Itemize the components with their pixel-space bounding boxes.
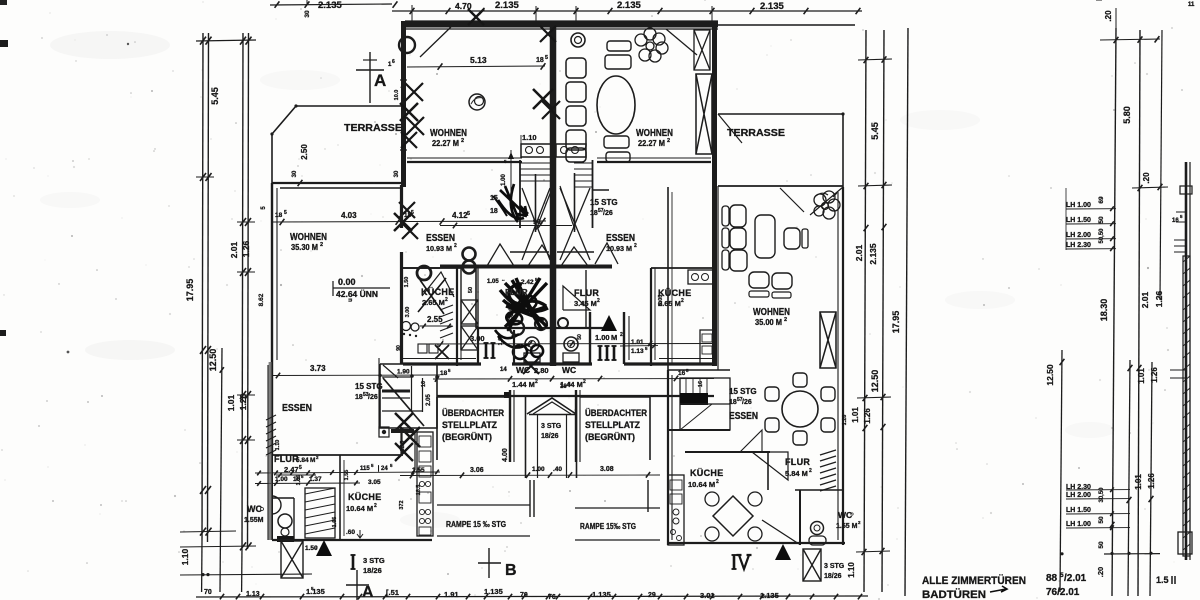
svg-text:/2.01: /2.01	[1064, 573, 1087, 584]
carport left: UEBERDACHTER STELLPLATZ	[436, 397, 438, 460]
svg-text:/26: /26	[603, 210, 613, 217]
svg-text:5: 5	[411, 210, 414, 216]
svg-text:STELLPLATZ: STELLPLATZ	[585, 420, 640, 430]
right unit living WOHNEN 35.00	[842, 187, 844, 545]
svg-text:372: 372	[399, 500, 405, 509]
svg-text:2.50: 2.50	[300, 144, 309, 160]
stair flights crossing left	[522, 188, 550, 260]
svg-text:76: 76	[548, 594, 556, 600]
svg-text:2.01: 2.01	[854, 244, 864, 261]
svg-text:1.00: 1.00	[595, 333, 610, 342]
terrace left outline	[272, 106, 296, 183]
svg-text:2: 2	[597, 298, 600, 304]
bottom sofa pair	[749, 272, 769, 288]
svg-text:70: 70	[204, 589, 212, 596]
window sill marks left wall	[400, 79, 407, 81]
svg-text:2.135: 2.135	[617, 0, 641, 11]
left dimension line group	[202, 33, 203, 540]
svg-text:1.13: 1.13	[631, 348, 644, 355]
wall stubs at stair foot	[403, 267, 440, 269]
RAMPE left	[437, 504, 530, 506]
carport right: UEBERDACHTER STELLPLATZ	[575, 390, 577, 462]
duct xboxes left	[461, 300, 478, 324]
svg-text:1.26: 1.26	[1147, 473, 1156, 489]
svg-text:10.64 M: 10.64 M	[688, 480, 715, 489]
svg-text:TERRASSE: TERRASSE	[727, 128, 785, 139]
svg-text:ESSEN: ESSEN	[729, 411, 758, 422]
svg-text:TERRASSE: TERRASSE	[344, 123, 402, 134]
bath sink rings	[510, 321, 524, 335]
right unit ESSEN lower	[667, 370, 669, 545]
svg-text:17.95: 17.95	[891, 311, 901, 334]
kitchen door wedge left	[422, 272, 454, 297]
svg-text:ÜBERDACHTER: ÜBERDACHTER	[585, 408, 647, 418]
svg-text:50: 50	[1098, 541, 1105, 549]
plant top right	[635, 34, 647, 46]
svg-text:FLUR: FLUR	[505, 287, 528, 297]
section marker A top	[369, 52, 371, 103]
top tiny marks far right	[1096, 0, 1102, 1]
svg-text:.40: .40	[553, 466, 562, 473]
pen ring left kitchen	[417, 266, 431, 280]
svg-text:A: A	[374, 71, 386, 90]
toilet symbol lower left	[278, 514, 292, 528]
stair shaft left unit	[519, 160, 521, 228]
svg-text:RAMPE 15‰ STG: RAMPE 15‰ STG	[580, 522, 636, 531]
pen ring on west wall	[399, 37, 415, 53]
wall fill left outer	[269, 362, 272, 540]
room WOHNEN 22.27 left	[407, 66, 545, 67]
entry triangle right	[775, 544, 791, 560]
svg-text:LH 1.50: LH 1.50	[1066, 507, 1091, 514]
svg-text:88: 88	[1046, 573, 1058, 584]
svg-text:16: 16	[560, 384, 567, 390]
svg-text:2.135: 2.135	[868, 243, 878, 265]
svg-text:1.55: 1.55	[412, 467, 425, 474]
svg-text:15 STG: 15 STG	[355, 382, 383, 391]
unit label III	[599, 346, 602, 360]
entry box with X right	[803, 549, 821, 581]
unit label II	[485, 343, 488, 358]
svg-text:LH 1.00: LH 1.00	[1066, 521, 1091, 528]
svg-text:LH 1.00: LH 1.00	[1066, 202, 1091, 209]
svg-text:3.00: 3.00	[470, 334, 485, 343]
svg-text:10.64 M: 10.64 M	[346, 504, 373, 513]
svg-text:WC: WC	[516, 365, 530, 375]
svg-text:4.03: 4.03	[341, 211, 357, 220]
svg-text:5.45: 5.45	[870, 122, 880, 140]
kitchen window hatch left wall	[440, 305, 453, 310]
svg-text:2.42: 2.42	[521, 279, 534, 286]
bottom wall right unit	[668, 542, 845, 544]
chairs along party wall	[571, 33, 585, 47]
svg-text:1.5: 1.5	[1156, 575, 1169, 585]
core mid dim line	[440, 225, 572, 227]
door pivot box	[379, 427, 389, 437]
svg-text:M: M	[310, 457, 315, 464]
window hatch right wall	[820, 450, 836, 455]
svg-text:ÜBERDACHTER: ÜBERDACHTER	[442, 408, 504, 418]
dining table right unit	[597, 76, 635, 134]
svg-text:1.26: 1.26	[1150, 367, 1159, 383]
svg-text:12.50: 12.50	[870, 370, 880, 393]
pen scribble left kitchen	[418, 278, 446, 314]
svg-text:1.44 M: 1.44 M	[512, 380, 535, 389]
left unit west core wall	[400, 185, 403, 228]
svg-text:5: 5	[467, 211, 470, 217]
pen X over WC label	[523, 358, 539, 374]
window xbox upper right wall	[694, 30, 710, 70]
room WOHNEN 35.30 / ESSEN left	[271, 183, 273, 455]
svg-text:30: 30	[394, 170, 400, 177]
svg-text:ESSEN: ESSEN	[606, 233, 635, 244]
svg-text:4.00: 4.00	[502, 448, 509, 462]
svg-text:18/26: 18/26	[541, 433, 559, 440]
entry niche walls	[477, 328, 479, 364]
svg-text:BADTÜREN: BADTÜREN	[922, 588, 986, 600]
svg-text:30: 30	[304, 10, 311, 18]
svg-text:2: 2	[809, 468, 812, 474]
svg-text:2: 2	[374, 503, 377, 509]
svg-text:2: 2	[320, 242, 323, 248]
svg-text:2.01: 2.01	[1140, 291, 1150, 308]
svg-text:2: 2	[667, 138, 670, 144]
svg-text:1.01: 1.01	[1134, 474, 1143, 490]
round dining table right unit	[782, 391, 818, 427]
svg-text:18: 18	[440, 370, 448, 377]
pen scribbles on west wall	[405, 83, 423, 101]
svg-text:↔: ↔	[501, 277, 506, 282]
svg-text:2.01: 2.01	[229, 241, 239, 258]
bottom wall of core	[403, 362, 481, 365]
svg-text:(BEGRÜNT): (BEGRÜNT)	[585, 432, 635, 442]
svg-text:5: 5	[284, 210, 287, 216]
svg-text:1.135: 1.135	[760, 591, 779, 600]
right mid dimension lines	[864, 30, 866, 592]
scan smudges	[50, 31, 170, 59]
svg-text:ESSEN: ESSEN	[426, 233, 455, 244]
svg-text:12.50: 12.50	[1045, 364, 1055, 386]
entry triangle left	[316, 540, 332, 556]
terrace right outline	[718, 113, 843, 115]
svg-text:50,50: 50,50	[1099, 228, 1105, 244]
entrance triangle right unit	[601, 315, 617, 331]
svg-text:KÜCHE: KÜCHE	[348, 492, 382, 502]
svg-text:1.10: 1.10	[180, 548, 190, 565]
svg-text:12.50: 12.50	[208, 349, 218, 372]
svg-text:1.26: 1.26	[238, 393, 248, 410]
svg-text:18: 18	[355, 394, 363, 401]
svg-text:LH 1.50: LH 1.50	[1066, 217, 1091, 224]
svg-text:22.27 M: 22.27 M	[638, 139, 665, 148]
stair shaft right unit	[592, 160, 594, 228]
svg-text:/26: /26	[368, 394, 378, 401]
toilet right unit	[564, 337, 578, 351]
svg-text:18.30: 18.30	[1099, 299, 1109, 322]
plant corner right	[814, 194, 826, 206]
svg-text:3.06: 3.06	[470, 467, 484, 474]
door swing terrace right	[780, 188, 804, 212]
armchair right	[784, 228, 800, 249]
svg-text:2.135: 2.135	[495, 0, 519, 11]
stair flights crossing right	[560, 188, 590, 260]
svg-text:5.84: 5.84	[296, 457, 309, 464]
vertical dim with arrow left stair	[510, 150, 512, 196]
svg-text:18: 18	[275, 212, 283, 219]
svg-text:30,50: 30,50	[1099, 487, 1105, 503]
svg-text:17.95: 17.95	[185, 279, 195, 302]
right unit KUECHE 2.65	[650, 268, 652, 366]
corridor bottom wall	[476, 327, 607, 329]
svg-text:.20: .20	[1142, 172, 1151, 184]
svg-text:16: 16	[678, 370, 686, 377]
stair hatch lower left	[305, 488, 335, 538]
section marker A bottom	[356, 570, 358, 600]
left unit entry stair U-shape	[380, 364, 437, 428]
entry box with X left	[281, 541, 303, 578]
rotated square table right unit	[713, 496, 753, 536]
svg-text:2: 2	[535, 379, 538, 385]
svg-text:5.80: 5.80	[1122, 106, 1132, 124]
svg-text:/26: /26	[742, 399, 752, 406]
svg-text:8.62: 8.62	[258, 293, 265, 306]
carport dim line upper	[420, 343, 714, 346]
svg-text:2: 2	[583, 379, 586, 385]
svg-text:3.08: 3.08	[600, 466, 614, 473]
L stair right unit	[680, 378, 730, 430]
svg-text:15 STG: 15 STG	[729, 387, 757, 396]
svg-text:5: 5	[545, 55, 548, 61]
svg-text:16: 16	[698, 381, 704, 387]
lower left unit rooms	[272, 454, 403, 456]
west wall left unit	[401, 21, 406, 187]
walls lower left	[272, 539, 432, 541]
svg-text:3.73: 3.73	[310, 364, 326, 373]
svg-text:6: 6	[392, 59, 395, 65]
svg-text:30: 30	[292, 170, 298, 177]
svg-text:4.12: 4.12	[452, 211, 468, 220]
svg-text:3 STG: 3 STG	[824, 563, 845, 570]
svg-text:2.135: 2.135	[318, 0, 342, 11]
svg-text:14: 14	[500, 367, 507, 373]
svg-text:1.01: 1.01	[851, 407, 860, 423]
misc walls below left unit	[414, 430, 416, 470]
svg-text:3.01: 3.01	[700, 591, 715, 600]
svg-text:18/26: 18/26	[363, 566, 382, 575]
dim line 1.01 right niche	[620, 345, 658, 347]
svg-text:1.135: 1.135	[306, 587, 325, 596]
kitchenette counter top left unit	[521, 144, 551, 157]
svg-text:5.13: 5.13	[470, 55, 487, 65]
svg-text:[.51: [.51	[386, 588, 399, 597]
svg-text:2: 2	[445, 297, 448, 303]
svg-text:50: 50	[468, 287, 474, 293]
far right dimension strip	[1112, 28, 1116, 596]
svg-text:18: 18	[729, 399, 737, 406]
svg-text:0.00: 0.00	[338, 277, 356, 287]
toilet left unit	[525, 337, 539, 351]
svg-text:1.00: 1.00	[501, 174, 507, 186]
top dimension line group	[270, 4, 392, 5]
svg-text:76/2.01: 76/2.01	[1046, 587, 1080, 598]
left unit kitchen KUECHE 2.65	[456, 268, 458, 366]
sofa group right unit	[722, 206, 729, 226]
walls kitchen right unit	[668, 429, 730, 431]
left kitchen sink bowls	[402, 322, 411, 331]
svg-text:1.26: 1.26	[1154, 290, 1164, 307]
sofa table right unit	[755, 215, 775, 258]
left kitchen stove	[418, 344, 427, 353]
door swing corner right	[666, 29, 697, 55]
svg-text:FLUR: FLUR	[574, 288, 599, 298]
corridor top wall	[440, 265, 612, 269]
svg-text:.20: .20	[1104, 10, 1113, 22]
scribble blob left flur	[500, 278, 548, 330]
svg-text:115: 115	[360, 466, 370, 472]
svg-text:2: 2	[620, 332, 623, 338]
svg-text:1.10: 1.10	[275, 440, 281, 451]
svg-text:1.26: 1.26	[241, 240, 251, 257]
svg-text:50: 50	[577, 334, 583, 340]
WC right unit	[795, 489, 843, 491]
svg-text:1.55: 1.55	[344, 470, 350, 481]
stair scribble left (pen)	[498, 184, 528, 222]
right edge wall fragment	[1185, 162, 1188, 560]
svg-text:15: 15	[490, 195, 498, 202]
level mark 0.00	[332, 281, 334, 296]
svg-text:18: 18	[490, 208, 498, 215]
svg-text:42.64 ÜNN: 42.64 ÜNN	[336, 289, 378, 299]
svg-text:1.65: 1.65	[332, 517, 338, 528]
svg-text:1.91: 1.91	[444, 590, 459, 599]
svg-text:(BEGRÜNT): (BEGRÜNT)	[442, 432, 492, 442]
svg-text:1.01: 1.01	[226, 394, 236, 411]
svg-text:2.05: 2.05	[658, 295, 664, 306]
svg-text:A: A	[362, 584, 374, 600]
svg-text:29: 29	[648, 592, 656, 599]
svg-text:2: 2	[634, 243, 637, 249]
upper right unit wall connections	[717, 186, 719, 370]
svg-text:2.05: 2.05	[426, 394, 432, 406]
door wedges right unit	[752, 452, 788, 480]
svg-text:WC: WC	[562, 365, 576, 375]
window xbox east wall right	[820, 312, 836, 368]
dim 3.73 line	[272, 374, 440, 377]
toilet right unit	[811, 522, 824, 535]
svg-text:22.27 M: 22.27 M	[432, 139, 459, 148]
svg-text:50: 50	[1098, 516, 1105, 524]
svg-text:1.37: 1.37	[309, 476, 322, 483]
svg-text:11: 11	[1188, 2, 1195, 8]
svg-text:1.55M: 1.55M	[244, 517, 264, 524]
party wall	[550, 21, 557, 366]
bottom dimension line	[196, 596, 868, 597]
svg-text:2: 2	[681, 298, 684, 304]
svg-text:1.00: 1.00	[532, 466, 545, 473]
svg-text:1.05: 1.05	[296, 475, 302, 486]
window xbox east wall	[696, 74, 712, 154]
internal dim line left room	[272, 221, 546, 222]
svg-text:69: 69	[1098, 196, 1105, 204]
appliance column right of kitchen lower-left	[417, 432, 433, 536]
door wedge right flur	[563, 286, 590, 310]
svg-text:KÜCHE: KÜCHE	[690, 468, 724, 478]
section marker B bottom	[488, 548, 490, 578]
svg-text:LH 2.30: LH 2.30	[1066, 242, 1091, 249]
covered walkway gable between carports	[525, 397, 527, 478]
unit label I	[352, 555, 355, 569]
svg-text:1.10: 1.10	[522, 133, 537, 142]
svg-text:.60: .60	[346, 529, 355, 536]
scan noise	[388, 90, 390, 92]
svg-text:1.90: 1.90	[397, 369, 410, 376]
svg-text:18/26: 18/26	[824, 573, 842, 580]
svg-text:2.80: 2.80	[534, 366, 549, 375]
svg-text:1.50: 1.50	[404, 277, 410, 288]
svg-text:❘24: ❘24	[376, 465, 388, 472]
svg-text:2: 2	[784, 317, 787, 323]
svg-text:.20: .20	[1096, 567, 1105, 577]
svg-text:3 STG: 3 STG	[363, 556, 385, 565]
svg-text:35.00 M: 35.00 M	[755, 318, 782, 327]
svg-text:WC: WC	[838, 510, 852, 520]
east wall right unit	[712, 21, 717, 366]
svg-text:B: B	[505, 562, 517, 579]
svg-text:STELLPLATZ: STELLPLATZ	[442, 420, 497, 430]
svg-text:5.45: 5.45	[210, 87, 220, 105]
svg-text:FLUR: FLUR	[785, 457, 810, 467]
svg-text:3.00: 3.00	[405, 307, 411, 318]
svg-text:2: 2	[716, 479, 719, 485]
right kitchen counters	[688, 270, 714, 284]
carport dim line lower	[400, 474, 660, 477]
RAMPE right	[575, 507, 660, 509]
svg-text:1.01: 1.01	[1137, 368, 1146, 384]
svg-text:70: 70	[520, 592, 528, 599]
svg-text:3.05: 3.05	[368, 479, 381, 486]
svg-text:18: 18	[590, 210, 598, 217]
svg-text:35.30 M: 35.30 M	[291, 243, 318, 252]
kitchenette counter right unit	[556, 144, 586, 157]
svg-text:1.135: 1.135	[592, 590, 611, 599]
svg-text:ALLE ZIMMERTÜREN: ALLE ZIMMERTÜREN	[922, 574, 1026, 587]
svg-text:2.135: 2.135	[760, 1, 784, 12]
svg-text:M: M	[611, 333, 617, 342]
svg-text:1.26: 1.26	[863, 408, 872, 424]
svg-text:10.93 M: 10.93 M	[426, 244, 452, 253]
door wedges above corridor	[487, 244, 514, 266]
svg-text:16: 16	[1172, 218, 1179, 224]
svg-text:LH 2.00: LH 2.00	[1066, 232, 1091, 239]
svg-text:2: 2	[454, 243, 457, 249]
svg-text:32.5: 32.5	[400, 441, 406, 452]
washbasin lower left	[272, 496, 281, 514]
svg-text:LH 2.00: LH 2.00	[1066, 492, 1091, 499]
svg-text:u: u	[348, 298, 354, 302]
svg-text:1.135: 1.135	[484, 587, 503, 596]
svg-text:1.01: 1.01	[631, 339, 644, 346]
svg-text:18: 18	[536, 57, 544, 64]
building outer walls	[405, 22, 718, 28]
kitchen counter right unit	[668, 475, 684, 545]
door swing top-left	[420, 26, 452, 57]
carport top wall line	[437, 395, 714, 397]
svg-text:10.0: 10.0	[394, 90, 400, 101]
svg-text:50: 50	[1098, 216, 1105, 224]
svg-text:1.26: 1.26	[842, 415, 848, 426]
double sink bold left	[463, 248, 476, 261]
svg-text:15 STG: 15 STG	[590, 198, 618, 207]
